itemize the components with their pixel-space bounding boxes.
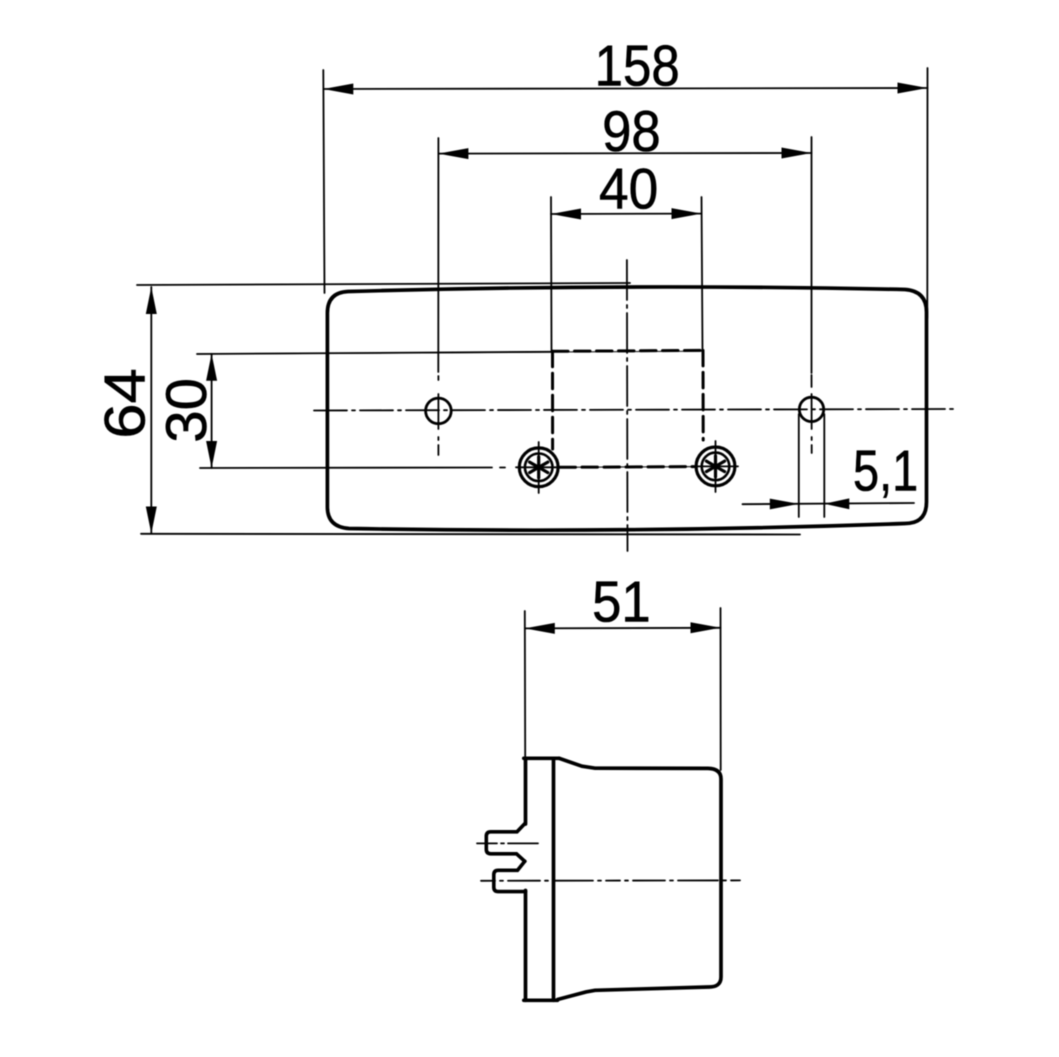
dimension 30 dimension line [206, 354, 217, 468]
screw axis thin line across right screw [693, 465, 738, 467]
svg-text:158: 158 [595, 34, 680, 99]
upper mounting pin [486, 824, 525, 862]
side view lamp housing body [558, 758, 722, 999]
centerline through right hole [811, 375, 813, 453]
screw right [696, 447, 735, 486]
vertical centerline of top view [626, 260, 629, 551]
hidden dashed line between screws [560, 465, 694, 469]
dimension 64 top extension line [137, 283, 630, 285]
horizontal centerline of top view [314, 409, 954, 411]
svg-text:5,1: 5,1 [853, 439, 918, 504]
screw axis dot before left screw [500, 467, 505, 469]
dimension 98 left extension line [437, 138, 439, 372]
hidden window dashed top edge [553, 349, 704, 353]
vertical centerline through left screw [538, 442, 540, 493]
upper pin centerline [477, 842, 548, 844]
dimension 5,1 extension line left [798, 414, 800, 517]
thin centerline under dashed line between screws [560, 466, 694, 469]
lower mounting pin [494, 861, 526, 891]
screw axis thin line across left screw [516, 466, 561, 468]
dimension 51 left extension line [524, 611, 526, 757]
hidden window dashed left edge [551, 351, 554, 449]
dimension 51 dimension line [525, 622, 721, 634]
dimension 40 dimension line [551, 208, 702, 219]
svg-text:40: 40 [599, 156, 658, 220]
vertical centerline through right screw [715, 441, 717, 492]
dimension 5,1 extension line right [823, 414, 825, 517]
mounting hole right [799, 397, 823, 421]
lower pin centerline [481, 879, 740, 881]
dimension 40 left extension line [550, 197, 553, 351]
svg-text:30: 30 [155, 378, 219, 443]
dimension 64 dimension line [146, 287, 157, 534]
dimension 5,1 dimension line with arrows [743, 498, 915, 509]
centerline through left hole [437, 376, 439, 455]
dimension 40 right extension line [702, 197, 703, 351]
svg-text:51: 51 [592, 569, 651, 634]
hidden window dashed right edge [702, 350, 705, 440]
dimension 98 dimension line [438, 148, 811, 160]
screw axis centerline left of screws [200, 467, 492, 470]
screw left [519, 448, 558, 487]
dimension 64 bottom extension line [141, 533, 800, 536]
svg-text:64: 64 [92, 368, 157, 439]
dimension 51 right extension line [720, 608, 722, 770]
svg-text:98: 98 [602, 99, 661, 164]
dimension 30 top extension line [197, 351, 703, 354]
mounting hole left [426, 398, 452, 424]
dimension 158 dimension line [323, 83, 927, 95]
dimension 158 left extension line [323, 70, 324, 293]
dimension 98 right extension line [811, 137, 813, 373]
dimension 158 right extension line [926, 68, 928, 318]
lamp body outline (top view) [327, 287, 926, 530]
side view lens plate [524, 758, 559, 1000]
